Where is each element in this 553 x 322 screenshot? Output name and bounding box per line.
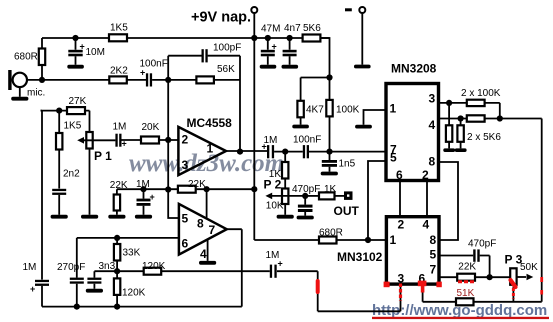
svg-text:22K: 22K — [458, 262, 476, 273]
svg-text:3: 3 — [429, 91, 436, 105]
red mark P3 body — [511, 280, 516, 287]
resistor 5K6 — [303, 35, 321, 42]
red mark pin6 drop — [418, 281, 427, 287]
svg-text:1K5: 1K5 — [110, 23, 128, 34]
svg-text:+: + — [150, 192, 155, 202]
node 10M/rail — [72, 35, 78, 41]
wire pin7 line — [439, 276, 457, 278]
svg-text:33K: 33K — [123, 248, 141, 259]
svg-text:2K2: 2K2 — [110, 65, 128, 76]
wire 5K6 to divider — [320, 38, 329, 78]
svg-text:8: 8 — [430, 233, 437, 247]
wire pin2 input — [159, 139, 178, 141]
svg-text:1: 1 — [207, 142, 214, 156]
capacitor 2n2 — [52, 189, 66, 191]
wire pin6 line — [77, 237, 179, 239]
svg-text:51K: 51K — [457, 288, 475, 299]
ground (MN3208 pin1) — [364, 110, 387, 125]
potentiometer P3 — [510, 268, 516, 285]
capacitor 470pF (MN3102) — [473, 249, 475, 261]
capacitor 1n5 — [329, 152, 331, 172]
ground (10M) — [67, 65, 84, 69]
resistor 1K (vertical) — [284, 152, 286, 189]
wire op1 output — [226, 150, 267, 152]
svg-text:MC4558: MC4558 — [187, 116, 233, 130]
svg-text:2 x 5K6: 2 x 5K6 — [467, 132, 501, 143]
IC U3 MN3102 — [386, 217, 439, 284]
svg-text:7: 7 — [209, 223, 216, 237]
svg-text:470pF: 470pF — [468, 239, 496, 250]
svg-text:4n7: 4n7 — [284, 23, 301, 34]
pin 4 ground — [207, 240, 209, 261]
capacitor 1M (bottom) electrolytic — [270, 265, 272, 278]
wire left column — [41, 111, 43, 280]
terminal OUT — [344, 191, 353, 200]
terminal minus — [359, 7, 365, 13]
wire bias rail — [117, 188, 254, 190]
node +9V/rail — [251, 35, 257, 41]
resistor 100K a (2 x 100K) — [467, 100, 485, 106]
svg-text:4K7: 4K7 — [306, 104, 324, 115]
red mark right edge — [540, 277, 543, 295]
svg-text:2: 2 — [182, 133, 189, 147]
svg-text:2: 2 — [398, 218, 405, 232]
resistor 680R (mic feed) — [41, 38, 43, 80]
svg-text:+: + — [278, 259, 283, 269]
red mark pin3 drop — [399, 284, 402, 301]
resistor 51K — [456, 298, 474, 305]
capacitor 1M (left) electrolytic — [35, 280, 49, 282]
svg-text:120K: 120K — [122, 287, 146, 298]
svg-text:P 2: P 2 — [264, 178, 282, 192]
svg-text:680R: 680R — [14, 52, 38, 63]
svg-text:2n2: 2n2 — [63, 169, 80, 180]
svg-text:3: 3 — [182, 158, 189, 172]
svg-text:+: + — [80, 42, 85, 52]
resistor 680R (MN3102 feed) — [319, 237, 337, 244]
svg-text:22K: 22K — [188, 179, 206, 190]
svg-text:5: 5 — [182, 212, 189, 226]
wire bottom right net — [423, 284, 456, 302]
svg-text:47M: 47M — [261, 23, 280, 34]
wire mic line — [27, 79, 109, 81]
potentiometer P2 — [282, 189, 288, 205]
resistor 4K7 — [300, 78, 302, 125]
node mic/680R — [39, 77, 45, 83]
capacitor 3n3 — [93, 271, 95, 289]
IC U2 MN3208 — [386, 84, 439, 181]
microphone mic. — [13, 73, 27, 87]
node divider — [326, 74, 332, 80]
resistor 120K (vertical) — [116, 271, 118, 306]
red mark chip corner right — [436, 282, 441, 288]
svg-text:100K: 100K — [336, 104, 360, 115]
resistor 1K5 (second) — [58, 111, 60, 189]
svg-text:56K: 56K — [217, 64, 235, 75]
svg-text:2 x 100K: 2 x 100K — [461, 88, 501, 99]
svg-text:10M: 10M — [86, 47, 105, 58]
wire feedback verticals — [168, 56, 240, 190]
svg-text:1n5: 1n5 — [339, 158, 356, 169]
resistor 100K b — [467, 115, 485, 121]
svg-text:+9V nap.: +9V nap. — [191, 10, 251, 26]
resistor 1K (to OUT) — [305, 195, 319, 197]
svg-text:1: 1 — [390, 102, 397, 116]
wire MN3208 pin8 to MN3102 pin8 — [439, 162, 459, 240]
svg-text:4: 4 — [200, 247, 207, 261]
capacitor 1M (output) electrolytic — [267, 145, 269, 158]
wire +9V down feed — [253, 38, 255, 240]
resistor 33K — [116, 238, 118, 271]
svg-text:5K6: 5K6 — [303, 23, 321, 34]
capacitor 1M (bias) electrolytic — [143, 189, 145, 215]
capacitor 100nF (second) — [303, 145, 305, 158]
svg-text:1M: 1M — [113, 122, 127, 133]
wire interchip pins — [400, 181, 427, 217]
wire pin5 to 470pF — [439, 255, 473, 257]
svg-text:8: 8 — [197, 217, 204, 231]
svg-text:MN3208: MN3208 — [391, 61, 437, 75]
resistor 27K — [41, 110, 90, 112]
red mark chip corner left — [384, 282, 390, 288]
svg-text:270pF: 270pF — [57, 262, 85, 273]
resistor 56K — [196, 76, 214, 83]
wire 120K line — [94, 270, 143, 272]
svg-text:6: 6 — [182, 237, 189, 251]
svg-text:1M: 1M — [136, 179, 150, 190]
wire pin4 net — [439, 118, 467, 120]
wire MN3208 pin5 drop — [368, 161, 386, 240]
svg-text:+: + — [122, 139, 127, 149]
resistor 22K (op-amp2 feed) — [178, 186, 196, 193]
potentiometer P1 — [89, 111, 91, 215]
capacitor 1M (P1 wiper) — [121, 139, 141, 141]
red mark under 22K — [458, 280, 475, 283]
svg-text:+: + — [30, 284, 35, 294]
wire pin3 net — [439, 102, 467, 104]
wire right edge feedback — [541, 119, 543, 302]
red mark P3 drop — [512, 288, 515, 299]
wire top supply rail — [42, 37, 109, 39]
node input junction — [165, 77, 171, 83]
svg-text:5: 5 — [390, 151, 397, 165]
wire 1M to pin3 bottom link — [277, 271, 401, 311]
svg-text:7: 7 — [430, 262, 437, 276]
resistor R 1K5 (top) — [109, 34, 127, 41]
op-amp U1b MC4558 — [179, 204, 227, 255]
svg-text:6: 6 — [396, 168, 403, 182]
wire op2 output — [227, 229, 242, 306]
svg-text:+: + — [272, 42, 277, 52]
capacitor 10M electrolytic — [75, 38, 77, 65]
resistor 2K2 — [109, 76, 127, 83]
svg-text:27K: 27K — [69, 96, 87, 107]
resistor 120K (horizontal) — [144, 268, 162, 275]
capacitor 47M electrolytic — [267, 38, 269, 65]
wire P3 bottom — [512, 285, 514, 302]
svg-text:+: + — [140, 68, 145, 78]
svg-text:1K: 1K — [324, 184, 337, 195]
resistor 5K6 b — [460, 119, 462, 149]
svg-text:50K: 50K — [520, 262, 538, 273]
capacitor 470pF (P2) — [302, 193, 308, 199]
red mark corner 1M link — [316, 281, 320, 292]
resistor 100K — [329, 78, 331, 152]
svg-text:20K: 20K — [142, 122, 160, 133]
svg-text:5: 5 — [430, 248, 437, 262]
svg-text:MN3102: MN3102 — [337, 250, 383, 264]
svg-text:100nF: 100nF — [293, 135, 321, 146]
capacitor 4n7 — [289, 38, 291, 65]
svg-text:1M: 1M — [23, 262, 37, 273]
capacitor 100nF (input) — [146, 73, 148, 86]
svg-text:+: + — [262, 142, 267, 152]
svg-text:680R: 680R — [319, 228, 343, 239]
resistor 22K (bias) — [116, 189, 118, 215]
op-amp U1a MC4558 — [178, 127, 226, 175]
svg-text:100pF: 100pF — [213, 43, 241, 54]
resistor 22K (MN3102) — [457, 274, 475, 281]
svg-text:1K5: 1K5 — [64, 121, 82, 132]
capacitor 100pF feedback — [168, 55, 240, 57]
svg-text:10K: 10K — [266, 201, 284, 212]
svg-text:1: 1 — [390, 233, 397, 247]
svg-text:4: 4 — [423, 218, 430, 232]
svg-text:mic.: mic. — [27, 88, 45, 99]
resistor 20K — [141, 137, 159, 144]
wire bottom rail — [42, 306, 242, 308]
svg-text:OUT: OUT — [334, 204, 360, 218]
terminal +9V — [251, 7, 257, 13]
svg-text:P 1: P 1 — [94, 149, 112, 163]
svg-text:470pF: 470pF — [292, 184, 320, 195]
svg-text:8: 8 — [429, 155, 436, 169]
svg-text:22K: 22K — [110, 180, 128, 191]
wire pin5 stub — [168, 190, 179, 219]
resistor 5K6 a (2 x 5K6) — [448, 103, 450, 148]
capacitor 270pF — [76, 238, 78, 307]
wire 680R supply line — [254, 239, 319, 241]
svg-text:2: 2 — [422, 168, 429, 182]
svg-text:4: 4 — [429, 118, 436, 132]
wire pin8 stub — [206, 189, 208, 218]
